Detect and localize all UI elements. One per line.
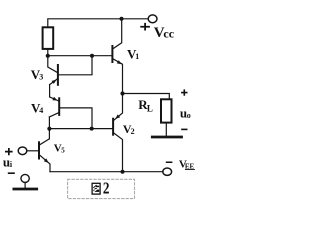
- wire output to RL: [123, 94, 170, 100]
- svg-text:2: 2: [131, 127, 135, 136]
- label + ui -: [3, 148, 15, 174]
- terminal input ui: [18, 147, 27, 155]
- wire bottom rail -VEE: [50, 171, 163, 173]
- svg-text:4: 4: [39, 106, 43, 115]
- svg-text:cc: cc: [163, 27, 174, 41]
- label +Vcc: [140, 23, 174, 41]
- label RL: [138, 97, 153, 113]
- transistor V1: [112, 19, 122, 94]
- svg-text:2: 2: [103, 180, 110, 198]
- label V4: [31, 101, 43, 116]
- label -VEE: [166, 159, 195, 171]
- wire V3 base link: [59, 56, 92, 75]
- wire input to V5 base: [27, 150, 38, 152]
- resistor RL: [161, 99, 172, 122]
- label figure 2 (tu glyph): [92, 183, 100, 194]
- node Vcc junction dot: [120, 17, 124, 21]
- label V2: [123, 122, 135, 136]
- figure caption dashed box: [68, 179, 135, 198]
- terminal -VEE: [163, 168, 172, 175]
- resistor R (bias): [43, 27, 54, 49]
- label + uo -: [180, 89, 191, 130]
- node B dot right: [90, 127, 94, 131]
- svg-text:3: 3: [39, 72, 43, 81]
- svg-text:L: L: [147, 103, 153, 113]
- wire node A horizontal: [48, 55, 112, 57]
- label V1: [127, 46, 139, 61]
- terminal +Vcc: [148, 15, 157, 23]
- transistor V2: [113, 94, 122, 172]
- node B dot left: [47, 127, 51, 131]
- transistor V3 (diode-connected): [48, 56, 58, 85]
- svg-text:1: 1: [135, 52, 139, 61]
- label V5: [54, 143, 65, 155]
- label V3: [31, 67, 43, 82]
- svg-text:5: 5: [61, 147, 65, 155]
- wire V4 base link: [60, 108, 92, 129]
- ground (output): [152, 136, 181, 139]
- node A dot right: [90, 54, 94, 58]
- wire left spine V4 to V5: [48, 117, 50, 139]
- wire node B horizontal: [49, 128, 112, 130]
- wire RL to ground: [165, 123, 167, 136]
- wire V3 emitter to V4: [49, 85, 51, 97]
- transistor V5: [39, 139, 50, 172]
- wire resistor bottom to node A: [47, 49, 49, 56]
- node A dot left: [46, 54, 50, 58]
- ground (input): [14, 174, 37, 189]
- node VEE junction dot: [121, 170, 125, 174]
- node output dot: [120, 91, 124, 95]
- transistor V4 (diode-connected): [49, 97, 59, 117]
- svg-text:o: o: [187, 111, 191, 120]
- wire top rail Vcc: [48, 19, 149, 28]
